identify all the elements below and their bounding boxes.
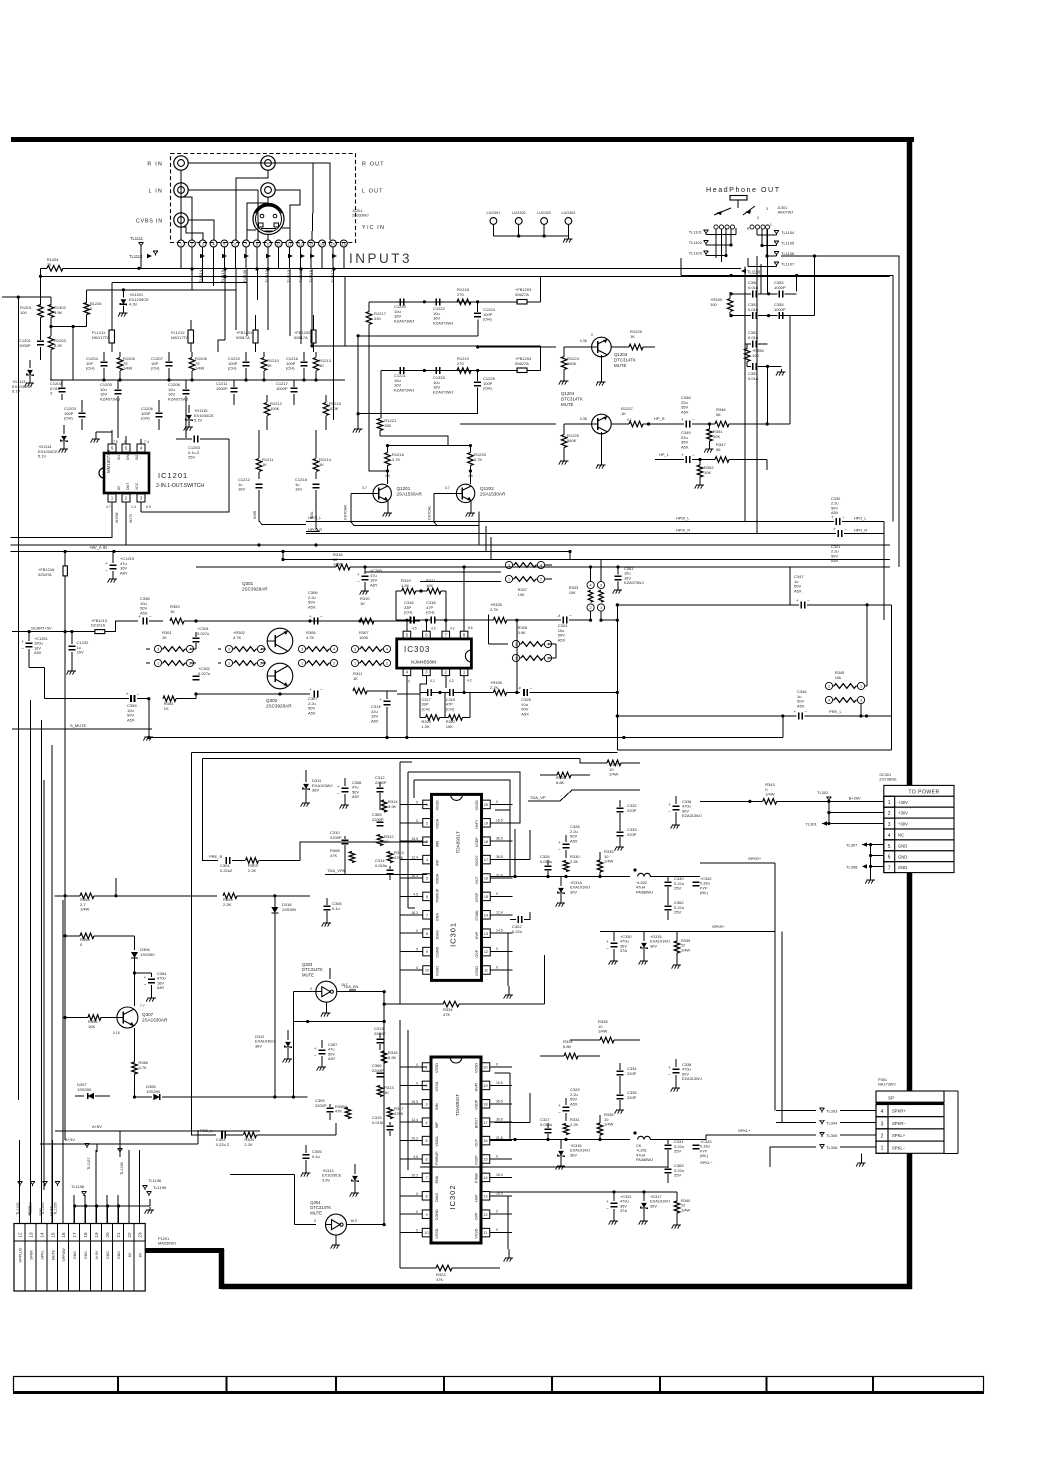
- svg-text:J1301: J1301: [777, 206, 787, 210]
- svg-text:+30V: +30V: [898, 800, 908, 805]
- svg-text:R OUT: R OUT: [362, 162, 385, 168]
- label SPKL+: [700, 1128, 776, 1140]
- resistor R330: [563, 854, 580, 872]
- svg-text:100K: 100K: [329, 406, 339, 411]
- svg-text:2.7K: 2.7K: [474, 457, 483, 462]
- svg-text:PRE_R: PRE_R: [209, 854, 222, 859]
- svg-text:4: 4: [386, 648, 388, 652]
- svg-text:1: 1: [228, 662, 230, 666]
- svg-text:MUTE: MUTE: [310, 1210, 322, 1215]
- resistor R335: [597, 849, 614, 877]
- svg-text:1.2K: 1.2K: [401, 583, 410, 588]
- svg-text:(CH): (CH): [286, 366, 295, 371]
- svg-text:TL1104: TL1104: [781, 230, 795, 235]
- svg-text:PA388WJ: PA388WJ: [636, 1157, 653, 1162]
- svg-text:10K: 10K: [518, 592, 525, 597]
- svg-text:MUTE: MUTE: [561, 402, 574, 407]
- svg-text:VSDP: VSDP: [475, 1099, 479, 1110]
- wire mid loop: [616, 567, 892, 750]
- terminal TL1196b: [71, 1184, 86, 1196]
- wire gnd pins: [865, 845, 884, 884]
- wire pin row to bus: [41, 247, 344, 271]
- resistor R337: [580, 760, 640, 777]
- svg-text:25V: 25V: [674, 910, 681, 915]
- svg-text:4: 4: [260, 648, 262, 652]
- capacitor C1208: [168, 380, 190, 438]
- svg-text:N0G17TA: N0G17TA: [92, 335, 110, 340]
- capacitor C1220: [394, 298, 414, 323]
- resistor R1217: [366, 302, 386, 424]
- svg-text:A5Y: A5Y: [328, 1056, 336, 1061]
- RCA jack L OUT: [261, 183, 384, 197]
- svg-text:DIAG: DIAG: [436, 930, 440, 939]
- capacitor C1203: [64, 400, 86, 430]
- svg-text:TDA8931T: TDA8931T: [456, 831, 461, 853]
- svg-text:11: 11: [484, 1231, 488, 1235]
- svg-text:+: +: [681, 453, 684, 458]
- capacitor C338b: [668, 1059, 702, 1092]
- svg-text:3.7: 3.7: [445, 486, 450, 490]
- svg-text:+8V_A IN: +8V_A IN: [89, 545, 107, 550]
- svg-text:2: 2: [189, 662, 191, 666]
- svg-text:30V: 30V: [650, 943, 657, 948]
- svg-text:TL1105: TL1105: [781, 241, 795, 246]
- svg-text:47K: 47K: [335, 1109, 342, 1114]
- svg-text:3: 3: [860, 699, 862, 703]
- svg-text:4.6: 4.6: [385, 474, 390, 478]
- transistor Q302: [266, 663, 293, 708]
- svg-text:(ML): (ML): [700, 890, 709, 895]
- label Y/C IN: [362, 225, 385, 231]
- svg-text:13: 13: [484, 932, 488, 936]
- svg-text:2: 2: [191, 242, 193, 246]
- svg-text:12: 12: [298, 242, 302, 246]
- svg-text:VSSP: VSSP: [475, 892, 479, 902]
- svg-text:HPOI_R: HPOI_R: [676, 529, 690, 533]
- svg-text:4.5: 4.5: [413, 892, 418, 896]
- ferrite FB1202: [294, 315, 316, 352]
- terminal TL307: [846, 842, 884, 847]
- label 8V_A IN: [11, 545, 285, 553]
- svg-text:14: 14: [484, 913, 488, 917]
- svg-text:100: 100: [710, 302, 717, 307]
- capacitor C316: [404, 600, 414, 624]
- svg-text:16: 16: [61, 1232, 66, 1238]
- svg-text:Q302: Q302: [266, 698, 278, 703]
- svg-text:−: −: [558, 1110, 561, 1115]
- svg-text:29.2: 29.2: [411, 1137, 418, 1141]
- wire box left: [344, 277, 346, 346]
- svg-text:12: 12: [484, 950, 488, 954]
- power amplifier IC302 TDA8931T: [400, 1057, 512, 1243]
- svg-text:TL1196: TL1196: [148, 1178, 162, 1183]
- RCA jack L IN: [149, 183, 189, 197]
- svg-text:(ML): (ML): [700, 1153, 709, 1158]
- svg-text:1/4W: 1/4W: [681, 947, 690, 952]
- svg-text:−: −: [606, 1206, 609, 1211]
- svg-text:+: +: [558, 840, 561, 845]
- capacitor C326: [540, 854, 552, 877]
- svg-text:0: 0: [496, 1155, 498, 1159]
- capacitor C363: [665, 1163, 685, 1183]
- svg-text:+: +: [606, 1199, 609, 1204]
- label SCART+5V: [12, 625, 95, 633]
- capacitor C329: [558, 1087, 580, 1121]
- capacitor C1251: [21, 632, 48, 668]
- svg-text:3.9V: 3.9V: [322, 1177, 330, 1182]
- svg-text:12.4: 12.4: [496, 910, 503, 914]
- svg-text:TDA8931T: TDA8931T: [455, 1094, 460, 1116]
- svg-text:0: 0: [416, 1063, 418, 1067]
- wire IC302 gnd: [504, 1249, 514, 1262]
- resistor R317: [387, 1106, 404, 1119]
- svg-text:SPPOW: SPPOW: [62, 1248, 66, 1262]
- svg-text:1/4W: 1/4W: [80, 907, 90, 912]
- capacitor C309: [315, 1098, 334, 1120]
- svg-text:0.015u: 0.015u: [372, 1120, 384, 1125]
- svg-text:8: 8: [426, 932, 428, 936]
- svg-text:(OH): (OH): [483, 317, 492, 322]
- svg-text:IC302: IC302: [448, 1184, 457, 1209]
- RCA jack CVBS IN: [136, 213, 188, 227]
- label HPO_L wire: [306, 516, 866, 522]
- svg-text:1SS390: 1SS390: [77, 1087, 92, 1092]
- resistor R1214: [313, 430, 331, 479]
- svg-text:220P: 220P: [627, 832, 637, 837]
- svg-text:HVPI: HVPI: [475, 820, 479, 829]
- resistor R1211: [256, 430, 274, 479]
- svg-text:15.5: 15.5: [411, 837, 418, 841]
- svg-text:2: 2: [888, 811, 891, 817]
- svg-text:BOOT: BOOT: [475, 1117, 479, 1128]
- connector J1201 pin row 1-16: [178, 240, 348, 247]
- label S_MUTE: [12, 723, 152, 729]
- svg-text:SP: SP: [888, 1096, 894, 1101]
- dashed connector outline J1201: [171, 154, 356, 243]
- svg-text:IN2: IN2: [135, 455, 139, 460]
- svg-text:25V: 25V: [674, 1149, 681, 1154]
- wire IC303 top pins: [396, 565, 490, 631]
- terminals TL1197 TL1198: [85, 1144, 124, 1176]
- capacitor C1221: [394, 367, 414, 392]
- svg-text:Y/C IN: Y/C IN: [362, 225, 385, 231]
- svg-text:8V: 8V: [117, 485, 121, 490]
- label OUTCHL: [428, 493, 446, 525]
- label J1201: [352, 209, 369, 218]
- svg-text:L IN: L IN: [149, 189, 164, 195]
- svg-text:3: 3: [508, 564, 510, 568]
- zener D315: [639, 932, 670, 965]
- svg-text:10K: 10K: [713, 434, 720, 439]
- resistor array R306: [298, 630, 337, 667]
- resistor R1203: [48, 337, 66, 381]
- svg-text:16: 16: [483, 1139, 487, 1143]
- svg-text:21: 21: [116, 1232, 121, 1238]
- svg-text:00627A: 00627A: [515, 292, 529, 297]
- resistor R304: [244, 1123, 337, 1147]
- label TDA_VPA: [325, 868, 427, 875]
- svg-text:19: 19: [484, 821, 488, 825]
- svg-text:4.7K: 4.7K: [139, 1065, 148, 1070]
- transistor Q307: [113, 1004, 168, 1035]
- svg-text:7: 7: [245, 242, 247, 246]
- zener D1113: [12, 360, 34, 394]
- svg-text:8.2K: 8.2K: [54, 343, 63, 348]
- capacitor C358: [337, 778, 361, 809]
- svg-text:1SS390: 1SS390: [282, 907, 297, 912]
- svg-text:0: 0: [416, 966, 418, 970]
- svg-text:0: 0: [496, 966, 498, 970]
- resistor array R301: [146, 630, 196, 667]
- resistor R1201: [20, 305, 43, 339]
- svg-text:0.22u2: 0.22u2: [220, 868, 233, 873]
- svg-text:15.5: 15.5: [496, 1081, 503, 1085]
- svg-text:30V: 30V: [570, 1152, 577, 1157]
- svg-text:0: 0: [496, 892, 498, 896]
- svg-text:SPKL−: SPKL−: [700, 1160, 713, 1165]
- svg-text:HVP: HVP: [475, 931, 479, 939]
- capacitor C362: [665, 900, 685, 920]
- svg-text:0: 0: [416, 1192, 418, 1196]
- wire mid rails: [196, 566, 890, 568]
- svg-text:TL302: TL302: [817, 790, 829, 795]
- svg-text:OUTCHL: OUTCHL: [428, 506, 432, 520]
- diode D308: [133, 1084, 308, 1100]
- svg-text:−: −: [518, 686, 521, 691]
- svg-text:TL305: TL305: [826, 1133, 838, 1138]
- svg-text:TL308: TL308: [846, 864, 858, 869]
- svg-text:1K: 1K: [630, 334, 635, 339]
- wire R1302 top: [2, 297, 51, 305]
- svg-text:A5X: A5X: [371, 718, 379, 723]
- capacitor C336: [668, 796, 702, 829]
- label INPUT3: [349, 251, 412, 266]
- svg-text:2: 2: [590, 606, 592, 610]
- svg-text:7.7: 7.7: [140, 1004, 145, 1008]
- capacitor C1216: [286, 352, 308, 380]
- svg-text:4: 4: [881, 1109, 884, 1115]
- svg-text:1K: 1K: [384, 1090, 389, 1095]
- svg-text:+: +: [309, 687, 312, 692]
- svg-text:36V: 36V: [255, 1043, 262, 1048]
- label HP_R: [649, 416, 673, 424]
- svg-text:1000P: 1000P: [216, 386, 228, 391]
- svg-text:10K: 10K: [446, 724, 453, 729]
- wire row1 bottom: [357, 319, 479, 414]
- svg-text:1K: 1K: [319, 462, 324, 467]
- labels SPKR SPKL rot: [28, 1205, 54, 1216]
- svg-text:TL1101: TL1101: [689, 230, 703, 235]
- svg-text:7: 7: [425, 1176, 427, 1180]
- wire hp to output: [766, 316, 790, 470]
- transistor Q304: [230, 1174, 386, 1248]
- capacitor C303: [216, 1131, 243, 1146]
- svg-text:SPKL−: SPKL−: [892, 1145, 906, 1150]
- svg-text:4.2: 4.2: [467, 679, 472, 683]
- svg-text:0: 0: [496, 947, 498, 951]
- resistor R326b: [490, 680, 520, 695]
- resistor R313: [387, 850, 404, 863]
- wire SPKR- to SP: [781, 932, 783, 1123]
- resistor R334: [293, 955, 544, 1225]
- svg-text:47K: 47K: [436, 1277, 443, 1282]
- capacitor C1204: [86, 352, 108, 380]
- svg-text:A5X: A5X: [681, 409, 689, 414]
- resistor R1233: [468, 446, 487, 484]
- svg-text:4: 4: [189, 648, 191, 652]
- resistor R319: [396, 578, 423, 594]
- svg-text:4: 4: [540, 564, 542, 568]
- resistor R1216: [385, 446, 405, 484]
- capacitor C357: [314, 1040, 337, 1071]
- svg-text:A+5V: A+5V: [95, 1250, 99, 1259]
- svg-text:1/4W: 1/4W: [123, 366, 133, 371]
- svg-text:(CH): (CH): [422, 706, 431, 711]
- svg-text:47K: 47K: [330, 853, 337, 858]
- svg-text:10K: 10K: [88, 1024, 95, 1029]
- svg-text:HPOI_L: HPOI_L: [308, 516, 322, 520]
- svg-text:0.1u: 0.1u: [332, 906, 340, 911]
- label SPKL-: [700, 1160, 713, 1165]
- zener D311: [301, 770, 333, 807]
- svg-text:4: 4: [828, 699, 830, 703]
- svg-text:NC: NC: [898, 833, 904, 838]
- wire right mid verticals: [749, 522, 884, 621]
- svg-text:1000P: 1000P: [276, 386, 288, 391]
- svg-text:2SA1530AR: 2SA1530AR: [480, 492, 506, 497]
- wire bus vertical drops: [137, 247, 141, 270]
- svg-text:1/4W: 1/4W: [765, 792, 775, 797]
- svg-text:25V: 25V: [674, 886, 681, 891]
- resistor R1210: [261, 352, 279, 380]
- svg-text:OUT: OUT: [475, 1138, 479, 1147]
- svg-text:IN3R: IN3R: [253, 510, 257, 519]
- svg-text:VSSD: VSSD: [436, 800, 440, 810]
- resistor R316: [300, 552, 365, 570]
- svg-text:4: 4: [333, 648, 335, 652]
- resistor R1215: [323, 395, 341, 430]
- svg-text:4.2: 4.2: [431, 627, 436, 631]
- svg-text:1: 1: [515, 657, 517, 661]
- wire SPKL- to SP: [770, 1147, 776, 1167]
- wire q upper bus: [369, 424, 388, 471]
- svg-text:ENA: ENA: [436, 913, 440, 921]
- label A+5V: [40, 1130, 198, 1144]
- svg-text:15: 15: [331, 242, 335, 246]
- zener D1115: [184, 405, 215, 431]
- svg-text:(CH): (CH): [446, 706, 455, 711]
- svg-text:37A: 37A: [620, 1208, 627, 1213]
- svg-text:(OH): (OH): [64, 416, 73, 421]
- svg-text:2SC3928AR: 2SC3928AR: [266, 704, 292, 709]
- svg-text:3.7: 3.7: [362, 486, 367, 490]
- resistor R1302: [48, 305, 86, 381]
- resistor array R345: [825, 670, 867, 718]
- svg-text:IC301: IC301: [449, 922, 458, 947]
- wire input jacks to header: [181, 163, 330, 240]
- resistor array R333: [569, 560, 619, 622]
- capacitor C353: [747, 363, 785, 381]
- resistor R316b: [381, 1050, 398, 1063]
- svg-text:PA388WJ: PA388WJ: [636, 889, 653, 894]
- resistor R314: [381, 799, 398, 812]
- svg-text:(CH): (CH): [228, 366, 237, 371]
- svg-text:0: 0: [416, 929, 418, 933]
- svg-text:L OUT: L OUT: [362, 189, 384, 195]
- svg-text:SCART+5V: SCART+5V: [31, 625, 52, 630]
- svg-text:+: +: [337, 784, 340, 789]
- capacitor C1205: [100, 380, 122, 438]
- svg-text:+: +: [668, 802, 671, 807]
- svg-text:EZA313WJ: EZA313WJ: [682, 1076, 702, 1081]
- svg-text:HVPI: HVPI: [475, 1083, 479, 1092]
- svg-text:16V: 16V: [238, 487, 245, 492]
- resistor array R328: [489, 615, 556, 662]
- resistor R322: [445, 693, 470, 729]
- resistor R313b: [377, 1085, 394, 1097]
- svg-text:Q1203: Q1203: [614, 352, 628, 357]
- resistor R343: [700, 782, 829, 804]
- capacitor C1201: [19, 338, 44, 360]
- svg-text:36.5: 36.5: [496, 1099, 503, 1103]
- capacitor C1218: [295, 477, 320, 508]
- svg-text:470K: 470K: [394, 1111, 404, 1116]
- svg-text:0: 0: [310, 987, 312, 991]
- svg-text:A5X: A5X: [34, 650, 42, 655]
- svg-text:1: 1: [600, 606, 602, 610]
- terminal TL1199: [147, 1185, 167, 1196]
- svg-text:0.015u: 0.015u: [375, 863, 387, 868]
- svg-text:0: 0: [408, 680, 410, 684]
- resistor R326: [540, 772, 590, 785]
- wire connector pins up: [20, 1140, 140, 1224]
- resistor R310: [360, 596, 397, 624]
- svg-text:2.7K: 2.7K: [490, 607, 499, 612]
- svg-text:14: 14: [483, 1176, 487, 1180]
- capacitor C332: [617, 800, 638, 826]
- diode D318: [271, 896, 297, 1099]
- svg-text:15: 15: [483, 1158, 487, 1162]
- svg-text:1: 1: [180, 242, 182, 246]
- svg-text:−: −: [842, 515, 845, 520]
- svg-text:17: 17: [484, 858, 488, 862]
- wire C1212 drop: [259, 508, 319, 532]
- svg-text:1.4: 1.4: [131, 505, 136, 509]
- border frame top: [11, 137, 914, 142]
- svg-text:1: 1: [888, 800, 891, 806]
- svg-text:INN: INN: [435, 1103, 439, 1110]
- capacitor C317: [420, 676, 440, 712]
- svg-text:TL1197: TL1197: [87, 1157, 91, 1170]
- label pin volt: [106, 440, 151, 509]
- svg-text:19: 19: [483, 1084, 487, 1088]
- resistor R340: [672, 1192, 692, 1229]
- svg-text:VCC: VCC: [135, 482, 139, 490]
- capacitor C311: [371, 676, 409, 739]
- svg-text:0: 0: [416, 1081, 418, 1085]
- svg-text:S_MUTE: S_MUTE: [70, 723, 87, 728]
- svg-text:0.01u: 0.01u: [748, 285, 758, 290]
- resistor R351: [704, 424, 723, 453]
- svg-text:TL1102: TL1102: [689, 240, 703, 245]
- svg-text:3.9K: 3.9K: [54, 310, 63, 315]
- capacitor C325: [518, 686, 619, 717]
- svg-text:IN3SW: IN3SW: [115, 512, 119, 523]
- wire A rails to pins: [97, 1131, 120, 1157]
- svg-text:LUG303: LUG303: [537, 211, 551, 215]
- wire TDA_EN: [349, 989, 356, 991]
- svg-text:MUTE: MUTE: [614, 363, 627, 368]
